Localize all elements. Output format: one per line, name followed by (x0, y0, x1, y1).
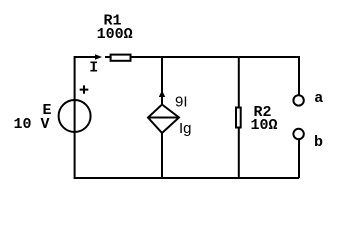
svg-text:Ig: Ig (179, 120, 192, 137)
wire left branch (74, 56, 76, 178)
wire top rail right segment (131, 56, 300, 58)
current arrow I (95, 54, 102, 60)
wire right branch upper (298, 56, 300, 95)
wire R2 branch lower (238, 129, 240, 179)
wire dependent source branch lower (161, 133, 163, 178)
wire right branch lower (298, 139, 300, 178)
svg-text:10 V: 10 V (14, 116, 50, 133)
resistor R1 (111, 55, 131, 61)
wire dependent source branch upper (161, 57, 163, 105)
svg-text:a: a (314, 90, 323, 107)
terminal a (293, 95, 303, 105)
resistor R2 (236, 108, 241, 128)
terminal b (293, 129, 303, 139)
svg-text:b: b (314, 134, 323, 151)
arrowhead of dependent source (159, 90, 165, 97)
svg-text:100Ω: 100Ω (97, 26, 133, 43)
wire R2 branch upper (238, 57, 240, 107)
plus polarity mark (80, 85, 89, 93)
dependent current source Ig diamond (148, 105, 179, 134)
svg-text:I: I (89, 60, 98, 77)
diamond chord (148, 117, 179, 119)
svg-text:9I: 9I (175, 94, 188, 111)
voltage source E (59, 100, 91, 132)
wire top rail left segment (75, 56, 95, 58)
svg-text:10Ω: 10Ω (251, 117, 278, 134)
wire bottom rail (74, 177, 299, 179)
wire top rail gap segment (105, 56, 111, 58)
